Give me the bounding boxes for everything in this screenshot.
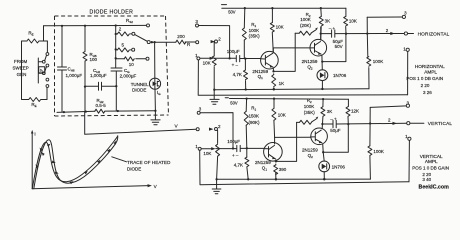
svg-text:100μF: 100μF [227, 49, 240, 54]
svg-text:DIODE: DIODE [127, 166, 141, 171]
svg-text:+ –: + – [232, 63, 239, 68]
svg-text:10K: 10K [276, 25, 284, 30]
svg-text:– +: – + [330, 116, 337, 121]
svg-text:100K: 100K [249, 28, 260, 33]
svg-text:1N706: 1N706 [333, 73, 347, 78]
svg-text:150K: 150K [249, 114, 260, 119]
svg-text:AMPL: AMPL [425, 159, 438, 164]
svg-text:(20K): (20K) [300, 23, 312, 28]
svg-text:2N1259: 2N1259 [255, 160, 271, 165]
svg-text:10K: 10K [203, 151, 211, 156]
svg-text:I: I [34, 131, 35, 136]
svg-text:390: 390 [279, 167, 287, 172]
svg-text:1,000μF: 1,000μF [90, 73, 107, 78]
svg-text:TRACE OF HEATED: TRACE OF HEATED [127, 160, 171, 165]
svg-text:DIODE HOLDER: DIODE HOLDER [90, 10, 134, 16]
svg-text:– +: – + [329, 26, 336, 31]
svg-text:50μF: 50μF [330, 128, 341, 133]
svg-text:10K: 10K [203, 61, 211, 66]
svg-text:2N1259: 2N1259 [302, 147, 318, 152]
svg-text:POS 1 0 DB GAIN: POS 1 0 DB GAIN [406, 76, 443, 81]
svg-text:POS 1 0 DB GAIN: POS 1 0 DB GAIN [412, 165, 449, 170]
svg-text:FROM: FROM [14, 59, 27, 64]
svg-text:4,7K: 4,7K [233, 72, 242, 77]
svg-text:3 40: 3 40 [422, 177, 431, 182]
svg-text:DIODE: DIODE [132, 87, 146, 92]
svg-text:BeekIC.com: BeekIC.com [419, 185, 450, 191]
svg-text:1N706: 1N706 [332, 165, 346, 170]
svg-text:AMPL: AMPL [424, 69, 437, 74]
svg-text:2 20: 2 20 [421, 83, 430, 88]
svg-text:10: 10 [129, 62, 135, 67]
svg-text:100K: 100K [304, 104, 315, 109]
svg-text:1K: 1K [279, 81, 285, 86]
svg-text:SWEEP: SWEEP [12, 66, 28, 71]
svg-text:3K: 3K [327, 109, 333, 114]
svg-text:50V: 50V [228, 9, 236, 14]
svg-text:100μF: 100μF [227, 139, 240, 144]
svg-text:HORIZONTAL: HORIZONTAL [418, 31, 450, 36]
svg-text:GEN: GEN [17, 72, 27, 77]
svg-text:50V: 50V [335, 44, 343, 49]
svg-text:10K: 10K [278, 113, 286, 118]
svg-text:100K: 100K [373, 59, 384, 64]
svg-text:100K: 100K [300, 17, 311, 22]
svg-text:(90K): (90K) [249, 120, 261, 125]
svg-text:200: 200 [177, 34, 185, 39]
svg-text:100: 100 [90, 57, 98, 62]
svg-text:100K: 100K [373, 149, 384, 154]
svg-text:+ –: + – [232, 153, 239, 158]
svg-text:VERTICAL: VERTICAL [428, 121, 453, 126]
svg-text:4,7K: 4,7K [234, 163, 243, 168]
svg-text:3K: 3K [325, 19, 331, 24]
svg-text:50V: 50V [230, 101, 238, 106]
svg-text:(35K): (35K) [249, 34, 261, 39]
svg-text:TUNNEL: TUNNEL [131, 82, 149, 87]
svg-text:2N1259: 2N1259 [302, 59, 318, 64]
svg-text:2,000μF: 2,000μF [120, 74, 137, 79]
svg-text:1,000μF: 1,000μF [66, 73, 83, 78]
svg-text:0.5-5: 0.5-5 [96, 103, 107, 108]
svg-text:HORIZONTAL: HORIZONTAL [415, 64, 445, 69]
svg-text:3 26: 3 26 [423, 90, 432, 95]
svg-text:10K: 10K [349, 19, 357, 24]
svg-text:12K: 12K [351, 109, 359, 114]
svg-text:(35K): (35K) [304, 110, 316, 115]
